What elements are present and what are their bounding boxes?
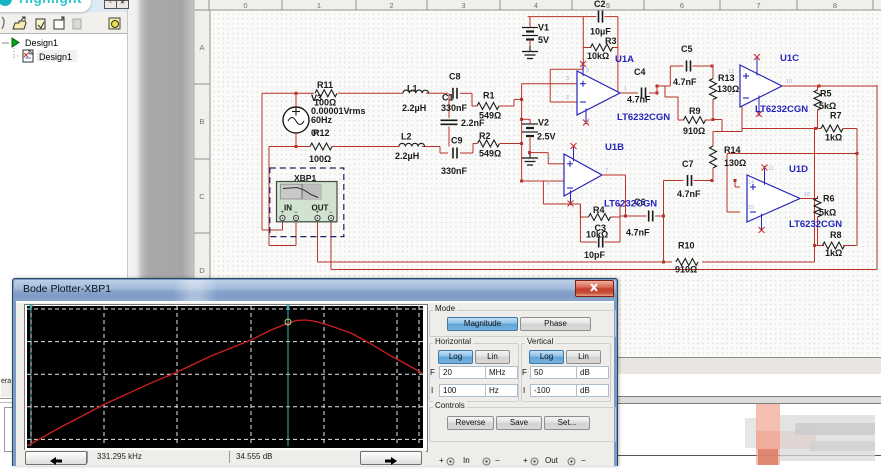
- svg-text:2.2nF: 2.2nF: [461, 118, 485, 128]
- svg-text:5kΩ: 5kΩ: [819, 101, 836, 111]
- svg-text:10pF: 10pF: [584, 250, 606, 260]
- svg-text:−: −: [294, 210, 298, 216]
- svg-text:+: +: [281, 210, 285, 216]
- svg-text:XBP1: XBP1: [294, 173, 316, 183]
- svg-text:U1B: U1B: [605, 142, 624, 153]
- svg-text:R3: R3: [605, 36, 617, 46]
- svg-text:10µF: 10µF: [590, 27, 611, 37]
- svg-text:330nF: 330nF: [441, 166, 468, 176]
- svg-text:15: 15: [748, 205, 754, 211]
- svg-text:R4: R4: [593, 205, 605, 215]
- svg-text:U1C: U1C: [780, 53, 799, 64]
- svg-text:330nF: 330nF: [441, 103, 468, 113]
- svg-text:6: 6: [547, 181, 550, 187]
- svg-text:C8: C8: [449, 72, 461, 82]
- svg-text:2: 2: [566, 95, 569, 101]
- svg-text:910Ω: 910Ω: [675, 265, 697, 275]
- svg-text:R7: R7: [830, 111, 842, 121]
- svg-text:130Ω: 130Ω: [717, 84, 739, 94]
- svg-text:16: 16: [804, 192, 810, 198]
- svg-text:8: 8: [586, 68, 589, 74]
- svg-text:5V: 5V: [538, 35, 549, 45]
- svg-text:U1A: U1A: [615, 54, 634, 65]
- svg-text:−: −: [329, 210, 333, 216]
- svg-text:60Hz: 60Hz: [311, 115, 333, 125]
- svg-text:C7: C7: [682, 159, 694, 169]
- svg-text:R9: R9: [689, 106, 701, 116]
- svg-text:130Ω: 130Ω: [724, 158, 746, 168]
- svg-text:5kΩ: 5kΩ: [819, 208, 836, 218]
- svg-text:910Ω: 910Ω: [683, 126, 705, 136]
- svg-text:2.5V: 2.5V: [537, 132, 556, 142]
- svg-text:1: 1: [624, 86, 627, 92]
- svg-text:V2: V2: [538, 118, 549, 128]
- svg-text:R6: R6: [823, 194, 835, 204]
- svg-text:100Ω: 100Ω: [309, 154, 331, 164]
- svg-text:4.7nF: 4.7nF: [673, 77, 697, 87]
- svg-text:R5: R5: [820, 89, 832, 99]
- svg-text:4.7nF: 4.7nF: [677, 189, 701, 199]
- svg-text:1kΩ: 1kΩ: [825, 248, 842, 258]
- svg-text:10: 10: [786, 79, 792, 85]
- svg-text:14: 14: [748, 180, 754, 186]
- svg-text:4: 4: [586, 120, 589, 126]
- svg-text:LT6232CGN: LT6232CGN: [617, 112, 670, 123]
- svg-text:V3: V3: [311, 93, 322, 103]
- svg-text:549Ω: 549Ω: [479, 149, 501, 159]
- svg-text:R8: R8: [830, 230, 842, 240]
- svg-text:7: 7: [605, 168, 608, 174]
- svg-text:2.2µH: 2.2µH: [402, 103, 426, 113]
- svg-text:LT6232CGN: LT6232CGN: [789, 219, 842, 230]
- svg-text:R13: R13: [718, 73, 735, 83]
- svg-text:4.7nF: 4.7nF: [627, 95, 651, 105]
- svg-text:11: 11: [768, 166, 774, 172]
- svg-text:LT6232CGN: LT6232CGN: [755, 104, 808, 115]
- svg-text:C9: C9: [451, 136, 463, 146]
- svg-text:U1D: U1D: [789, 164, 808, 175]
- svg-text:C4: C4: [634, 67, 646, 77]
- svg-text:LT6232CGN: LT6232CGN: [604, 199, 657, 210]
- svg-text:R2: R2: [479, 131, 491, 141]
- svg-text:R14: R14: [724, 145, 741, 155]
- svg-text:IN: IN: [284, 204, 292, 213]
- svg-text:L1: L1: [407, 84, 418, 94]
- svg-text:1kΩ: 1kΩ: [825, 133, 842, 143]
- svg-text:V1: V1: [538, 23, 549, 33]
- svg-text:R10: R10: [678, 241, 695, 251]
- svg-text:2.2µH: 2.2µH: [395, 151, 419, 161]
- svg-text:OUT: OUT: [312, 204, 329, 213]
- svg-text:C2: C2: [594, 0, 606, 9]
- svg-text:4.7nF: 4.7nF: [626, 228, 650, 238]
- svg-text:3: 3: [566, 76, 569, 82]
- svg-text:C1: C1: [442, 93, 454, 103]
- svg-text:C5: C5: [681, 44, 693, 54]
- svg-text:R11: R11: [317, 80, 333, 90]
- svg-text:R12: R12: [313, 128, 330, 138]
- svg-text:+: +: [316, 210, 320, 216]
- svg-text:L2: L2: [401, 132, 412, 142]
- svg-text:C3: C3: [595, 223, 607, 233]
- svg-text:R1: R1: [483, 91, 495, 101]
- svg-text:10kΩ: 10kΩ: [587, 51, 609, 61]
- svg-text:5: 5: [547, 156, 550, 162]
